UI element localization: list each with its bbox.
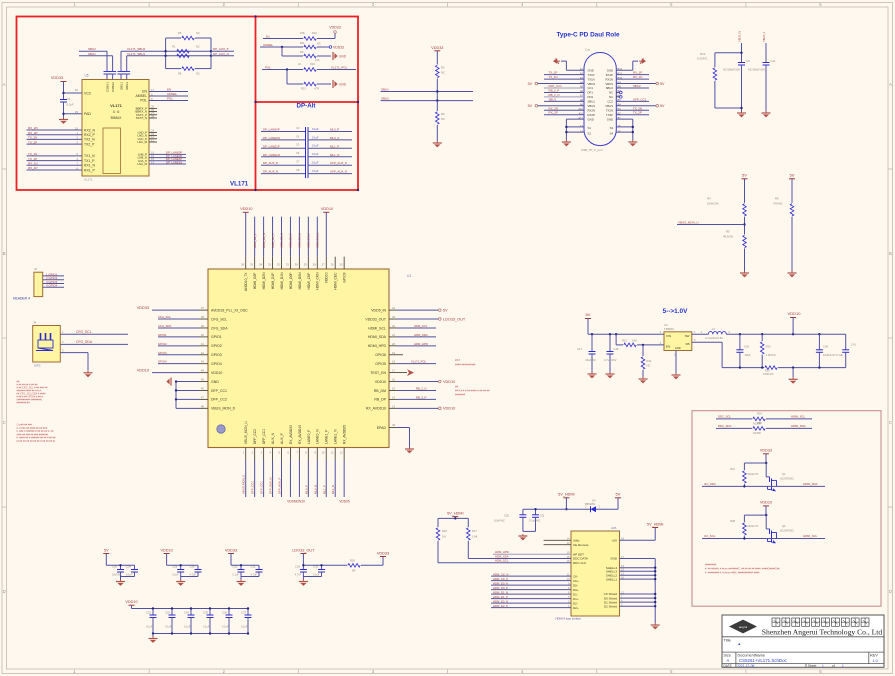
svg-text:SBU2: SBU2 [606,86,614,90]
svg-text:DFP_CC2: DFP_CC2 [253,429,257,444]
svg-text:HDM_CK_N: HDM_CK_N [493,572,508,576]
svg-text:RX_1P: RX_1P [28,166,38,170]
power 5V at B9 VBUS [616,82,665,86]
svg-text:TX2_P: TX2_P [84,142,95,146]
wire HDM_D1_N riser [280,217,284,269]
svg-text:D0-: D0- [573,583,578,587]
svg-text:GND: GND [607,68,613,72]
svg-text:POL: POL [167,96,173,100]
svg-text:SSTX_N: SSTX_N [136,116,147,120]
svg-text:DFP_CC1: DFP_CC1 [211,389,227,393]
svg-text:DATE: DATE [724,664,732,668]
wire POL strap [262,66,303,71]
power 5V right of diode [615,492,621,510]
svg-text:DN1: DN1 [588,95,594,99]
svg-text:LANE1_N: LANE1_N [334,429,338,444]
svg-text:HDM_HPD: HDM_HPD [414,342,428,346]
svg-text:42: 42 [201,351,205,355]
company name Chinese [772,618,869,626]
svg-text:SHELL1: SHELL1 [606,577,618,581]
svg-text:19: 19 [392,351,396,355]
svg-text:VDD33: VDD33 [377,551,389,555]
ground right of R21 [333,80,347,88]
svg-text:47K/NC: 47K/NC [773,202,783,206]
svg-text:C4: C4 [296,134,300,138]
svg-text:14: 14 [392,395,396,399]
svg-text:Con: Con [585,48,591,52]
svg-text:5V: 5V [616,492,621,497]
wire I2C_SCL level shifter [702,534,825,540]
svg-text:NC/100uF/10V: NC/100uF/10V [748,68,765,72]
svg-text:39: 39 [201,324,205,328]
section title 5 to 1.0V [663,308,688,315]
svg-text:10K: 10K [632,339,637,343]
svg-text:TX1_P: TX1_P [84,159,95,163]
svg-text:C21: C21 [540,514,545,518]
svg-text:HEADER 4: HEADER 4 [13,297,30,301]
no-connect B6 [616,96,622,99]
svg-text:VL171: VL171 [110,103,123,108]
svg-text:GND: GND [610,557,618,561]
wire bottom pin 11 ML1_N [331,448,335,498]
svg-text:18: 18 [392,360,396,364]
svg-text:FB: FB [686,342,690,346]
transistor Q1 [766,463,794,491]
svg-text:GND: GND [339,55,347,59]
svg-text:D: D [3,589,6,594]
svg-text:ML1_N: ML1_N [331,485,335,494]
wire HDM_SDA to HDMI [468,554,571,558]
svg-text:24: 24 [392,306,396,310]
wire VBUS riser [737,31,741,53]
wire FB network [692,342,764,369]
varistor RV1 [697,52,742,108]
svg-text:NC: NC [609,95,613,99]
svg-text:VDD33: VDD33 [51,76,63,80]
svg-text:D2+: D2+ [573,606,579,610]
svg-text:ML0_N: ML0_N [313,485,317,494]
svg-text:RX2P: RX2P [588,113,595,117]
svg-text:C17: C17 [577,347,582,351]
svg-text:REV: REV [870,653,878,657]
svg-text:TX2_N: TX2_N [84,138,95,142]
svg-text:D4: D4 [592,499,596,503]
VL171 pin names [84,82,148,173]
svg-text:ML1_P: ML1_P [330,144,339,148]
svg-text:15K: 15K [300,31,305,35]
wire HDM_D0_P to HDMI [491,586,571,590]
svg-text:En: En [266,35,270,39]
svg-text:RX_AVDD05: RX_AVDD05 [343,425,347,444]
svg-text:30: 30 [295,263,299,267]
svg-text:5V: 5V [443,308,448,312]
svg-text:LANE0_P: LANE0_P [307,429,311,444]
svg-text:########:: ########: [705,564,717,567]
wire HDM_CK_P to HDMI [491,577,571,581]
wire HDM_CK_N riser [316,217,320,269]
wire TX_1P A2 [544,71,584,75]
wire bottom pin 1 VBUS_MON_U [242,448,246,498]
capacitor C21 [523,508,545,531]
svg-text:VDD10: VDD10 [211,371,222,375]
svg-text:HDM_D2_P: HDM_D2_P [253,233,257,248]
wire I2C_SDA level shifter [702,482,825,488]
section title Type-C PD Daul Role [556,32,620,39]
svg-text:L2: L2 [712,327,715,331]
svg-text:C16: C16 [614,347,619,351]
power 5V above R4 [742,173,748,203]
svg-text:CK+: CK+ [573,579,579,583]
svg-text:VBUS: VBUS [605,82,613,86]
svg-text:RX_2N: RX_2N [549,106,558,110]
svg-text:HDMI_D1N: HDMI_D1N [280,272,284,289]
svg-text:S3: S3 [610,126,614,130]
svg-text:10: 10 [322,451,326,455]
svg-text:AMSEL: AMSEL [167,92,178,96]
svg-text:R8: R8 [178,72,182,76]
svg-text:0.1uF: 0.1uF [203,626,210,629]
svg-text:CC1: CC1 [588,86,594,90]
svg-text:VBUS: VBUS [605,104,613,108]
diode D4 [585,499,601,513]
ground below C20 [518,534,527,540]
svg-text:(# ## ## ## ## ## ## # ## ## #: (# ## ## ## ## ## ## # ## ## ## #). [17,440,57,443]
svg-text:R19: R19 [350,559,355,563]
svg-text:0.1uF: 0.1uF [222,626,229,629]
power 5V above R6b [789,173,795,203]
capacitor C3 row DP_LANE0P [261,126,352,136]
svg-text:R5: R5 [178,31,182,35]
svg-text:UFP_AUX_P: UFP_AUX_P [330,161,347,165]
svg-text:31: 31 [286,263,290,267]
svg-text:CC2: CC2 [607,100,613,104]
svg-text:+5V: +5V [612,539,617,543]
svg-text:VL171_POL: VL171_POL [331,65,348,69]
svg-text:40: 40 [201,333,205,337]
svg-text:HDMI_CKP: HDMI_CKP [307,272,311,290]
net label VDDMON10 [287,500,305,504]
wires DP_LANE from VL171 [149,151,186,165]
svg-text:RX1_P: RX1_P [84,168,95,172]
svg-text:RV1: RV1 [700,52,706,56]
svg-text:CFG_SCL: CFG_SCL [76,330,92,334]
earth arrow left [553,58,560,64]
wire VL171_POL at GPIO5 [389,358,476,366]
capacitor bank C22-C37 on VDD10 [125,600,251,637]
power VDD33 above Q1 [744,449,772,465]
wire B1 GND to shield bus [616,119,634,140]
svg-text:R23: R23 [310,62,315,66]
wire HDM_D2_P riser [253,217,257,269]
capacitor C9 [723,52,750,111]
svg-text:0.1uF: 0.1uF [836,353,843,357]
svg-text:HD5: HD5 [611,526,617,530]
wire input rail [588,333,664,335]
capacitor C6 row DP_LANE1N [261,151,352,161]
svg-text:HDM_D0_N: HDM_D0_N [298,233,302,248]
wire HDM_D0_N to HDMI [491,581,571,585]
ground left of U1 [166,378,171,386]
svg-text:VDD33: VDD33 [333,45,344,49]
svg-text:SBU1: SBU1 [588,100,596,104]
power VDD33 at VL171 VCC [51,76,82,100]
svg-text:RB_DP: RB_DP [374,398,386,402]
svg-text:0.1uF: 0.1uF [67,103,74,107]
svg-text:TX1P: TX1P [588,73,595,77]
svg-text:SBU2: SBU2 [633,84,641,88]
wire HDM_D1_N to HDMI [491,590,571,594]
svg-text:C: C [3,420,6,425]
title block frame [722,615,884,667]
svg-text:EN: EN [142,90,147,94]
svg-text:100K/1%: 100K/1% [763,372,774,376]
svg-text:I2C_SCL: I2C_SCL [704,534,716,538]
red group box VL171 [17,15,360,191]
svg-text:GND: GND [588,68,594,72]
wire GPIO1 at U1 [158,333,208,337]
svg-text:100K/1%: 100K/1% [707,202,719,206]
size and document row [724,653,879,663]
svg-text:GPIO1: GPIO1 [211,335,222,339]
svg-text:GPIO9: GPIO9 [343,272,347,282]
svg-text:C34: C34 [184,611,189,615]
note text block 1 [17,381,49,405]
svg-text:VBUS_MON_U: VBUS_MON_U [242,475,246,494]
svg-text:HDMI_SCL: HDMI_SCL [791,415,806,419]
wire RB_2_P A6 [544,88,584,92]
svg-text:GPIO4: GPIO4 [158,360,167,364]
wire SBU pair to CSBU pins [79,47,113,71]
svg-text:45: 45 [201,378,205,382]
svg-text:AMSEL: AMSEL [136,94,148,98]
svg-text:0.1uF: 0.1uF [312,152,319,156]
svg-text:TD6810: TD6810 [664,327,674,331]
svg-text:DP_AUX_N: DP_AUX_N [263,170,278,174]
svg-text:RX_2P: RX_2P [28,131,38,135]
resistor R13 [760,334,776,367]
svg-text:C37: C37 [241,611,246,615]
svg-text:HDMI_D1P: HDMI_D1P [271,272,275,289]
svg-text:D0+: D0+ [573,588,579,592]
resistor R24 DDC_SCL [716,412,812,426]
svg-text:C41: C41 [851,343,856,347]
svg-text:GND: GND [211,380,219,384]
svg-text:13: 13 [392,404,396,408]
svg-text:5V_HDMI: 5V_HDMI [647,523,663,527]
ground right of R9 [333,52,347,60]
svg-text:R16: R16 [442,529,447,533]
svg-text:41: 41 [201,342,205,346]
wire diode rail [523,508,618,510]
wire HDM_HPD [389,342,436,346]
svg-text:AVDD10_TX: AVDD10_TX [244,272,248,291]
svg-text:A: A [727,658,730,663]
svg-text:AVDD33_PLL_IO_OSC: AVDD33_PLL_IO_OSC [211,308,248,312]
svg-text:HDMI_SDA: HDMI_SDA [803,482,818,486]
svg-text:44: 44 [201,369,205,373]
svg-text:CSBU2: CSBU2 [111,82,115,92]
svg-text:NC/0R: NC/0R [753,431,761,435]
no-connect B7 [616,91,622,94]
transistor Q2 [766,515,794,543]
svg-text:VDD05: VDD05 [339,500,350,504]
svg-text:RB_2_P: RB_2_P [549,88,560,92]
svg-text:LDO33_OUT: LDO33_OUT [443,317,466,321]
U1 pin numbers [201,263,396,455]
svg-text:0.1uF: 0.1uF [312,144,319,148]
svg-text:RX_1N: RX_1N [28,162,38,166]
svg-text:C31: C31 [233,565,238,569]
svg-text:VL171_SBU2: VL171_SBU2 [127,47,146,51]
power VDD10 riser pin36 [240,207,252,269]
svg-text:HDMI_D2P: HDMI_D2P [253,272,257,289]
wire bottom pin 5 DFP_AUX_P [278,448,282,498]
svg-text:TX1N: TX1N [588,77,595,81]
ground below C11 [762,111,771,117]
ground below HDMI shield bus [651,623,660,629]
svg-text:HDM_D2_N: HDM_D2_N [262,233,266,248]
svg-text:R21: R21 [301,87,306,91]
svg-text:RX_AVDD10: RX_AVDD10 [298,425,302,444]
svg-text:S1: S1 [588,126,592,130]
stub GPIO9 pin25 [343,257,345,269]
ground at VL171 VCC [59,118,68,124]
svg-text:23: 23 [392,315,396,319]
svg-text:DFP_AUX_P: DFP_AUX_P [278,478,282,494]
ground below R14 [639,377,648,383]
svg-text:GPIO5: GPIO5 [375,362,386,366]
svg-text:DP_LANE0N: DP_LANE0N [263,136,280,140]
svg-text:NC: NC [609,91,613,95]
wire LDO33_OUT at U1 pin23 [389,317,466,321]
wire SBU1 horizontal [381,87,473,92]
svg-text:D: D [889,589,892,594]
svg-text:R6: R6 [441,112,445,116]
svg-text:HDM_D0_N: HDM_D0_N [493,581,508,585]
ground below SIP3 [84,371,93,377]
power VDD33 at U1 pin37 [137,306,208,310]
wire HDM_D2_N riser [262,217,266,269]
svg-text:C11: C11 [771,59,776,63]
svg-text:VDD10: VDD10 [325,272,329,283]
svg-text:C35: C35 [203,611,208,615]
svg-text:VDD10: VDD10 [443,407,455,411]
svg-text:RX_1P: RX_1P [633,71,642,75]
company name English [762,628,883,637]
capacitor group C28 C29 on VDD10 [160,548,201,586]
svg-text:LANE0_N: LANE0_N [316,429,320,444]
stub GPIO6 [389,354,403,356]
wire HDM_D2_N to HDMI [491,599,571,603]
svg-text:C8: C8 [296,168,300,172]
svg-text:CFG_SDA: CFG_SDA [158,324,171,328]
svg-text:R10: R10 [312,31,317,35]
svg-text:DP1: DP1 [588,91,594,95]
svg-text:C20: C20 [504,514,509,518]
wire bus RX2/TX2 into VL171 [27,126,83,144]
wire bottom pin 7 supply [298,448,300,498]
company logo diamond [729,620,757,634]
svg-text:C: C [889,420,892,425]
wire bottom pin 4 DFP_AUX_N [269,448,273,498]
wire HDM_D1_P riser [271,217,275,269]
svg-text:HDM_SCL: HDM_SCL [414,324,428,328]
svg-text:GND: GND [588,117,594,121]
svg-text:VDD10: VDD10 [137,368,149,372]
svg-text:VBUS: VBUS [588,82,596,86]
IC U5 VL171 body [82,74,149,182]
wire HDM_SCL to HDMI [438,559,571,563]
svg-text:#### #######)##: #### #######)## [455,362,476,366]
svg-text:ML1_N: ML1_N [330,153,339,157]
svg-text:SBU2: SBU2 [381,96,389,100]
svg-text:VDD10: VDD10 [760,501,772,505]
svg-text:NC: NC [196,72,200,76]
svg-text:R26: R26 [757,421,762,425]
wire bottom pin 8 ML0_P [304,448,308,498]
svg-text:B5819W: B5819W [585,502,596,506]
svg-text:10uF/NC: 10uF/NC [585,358,596,362]
svg-text:RX_2P: RX_2P [549,111,558,115]
svg-text:ML0_P: ML0_P [330,128,339,132]
test enable arrow at pin17 [389,369,414,376]
ground below R5 [740,271,749,277]
svg-text:TX_1P: TX_1P [28,157,37,161]
wires EN AMSEL POL from VL171 [149,87,188,100]
wire HDM_D0_P riser [289,217,293,269]
svg-text:HDMI_SDA: HDMI_SDA [368,335,387,339]
svg-text:1.8K: 1.8K [472,535,478,539]
svg-text:VL171: VL171 [230,181,249,188]
connector CN1 USB Type-C body [581,48,616,152]
svg-text:VBUS_IN: VBUS_IN [737,31,741,42]
svg-text:VCC: VCC [84,92,92,96]
svg-text:USB_TP_C_port: USB_TP_C_port [581,148,603,152]
svg-text:26: 26 [331,263,335,267]
svg-text:R27: R27 [730,467,735,471]
svg-text:10uF/6.3V: 10uF/6.3V [823,353,836,357]
ground below U3 [672,351,681,380]
svg-text:0.1uF: 0.1uF [233,574,240,577]
svg-text:AMSEL: AMSEL [263,43,274,47]
connector J5 HDMI body [556,526,620,620]
svg-text:DFP_CC1: DFP_CC1 [262,429,266,444]
power VDD10 above Q2 [744,501,772,517]
ground below C16 [606,372,615,378]
svg-text:CFG_SDA: CFG_SDA [211,326,228,330]
svg-text:of: of [832,664,835,668]
svg-text:HDMI_SCL: HDMI_SCL [368,326,386,330]
group box level shifters [692,411,881,607]
svg-text:D1+: D1+ [573,597,579,601]
power 5V_HDMI flag at diode rail [558,493,574,511]
svg-text:DP-Alt: DP-Alt [297,103,316,110]
svg-text:4.7uF/16V: 4.7uF/16V [604,358,617,362]
svg-text:HDM_D0_P: HDM_D0_P [493,586,508,590]
wire HDM_D1_P to HDMI [491,595,571,599]
wire HDM_SCL [389,324,436,328]
svg-text:17: 17 [392,369,396,373]
wire EN with resistor R12 [616,334,664,347]
resistor R6 pulldown [773,197,794,272]
svg-text:11: 11 [331,451,334,455]
resistor R21 [287,70,331,91]
power 5V at U1 pin24 [389,308,448,312]
wire RB_2_N A7 [544,93,584,97]
ground below R6 [433,141,442,147]
regulator U3 TD6810 [660,323,696,356]
svg-text:10uF: 10uF [745,353,751,357]
